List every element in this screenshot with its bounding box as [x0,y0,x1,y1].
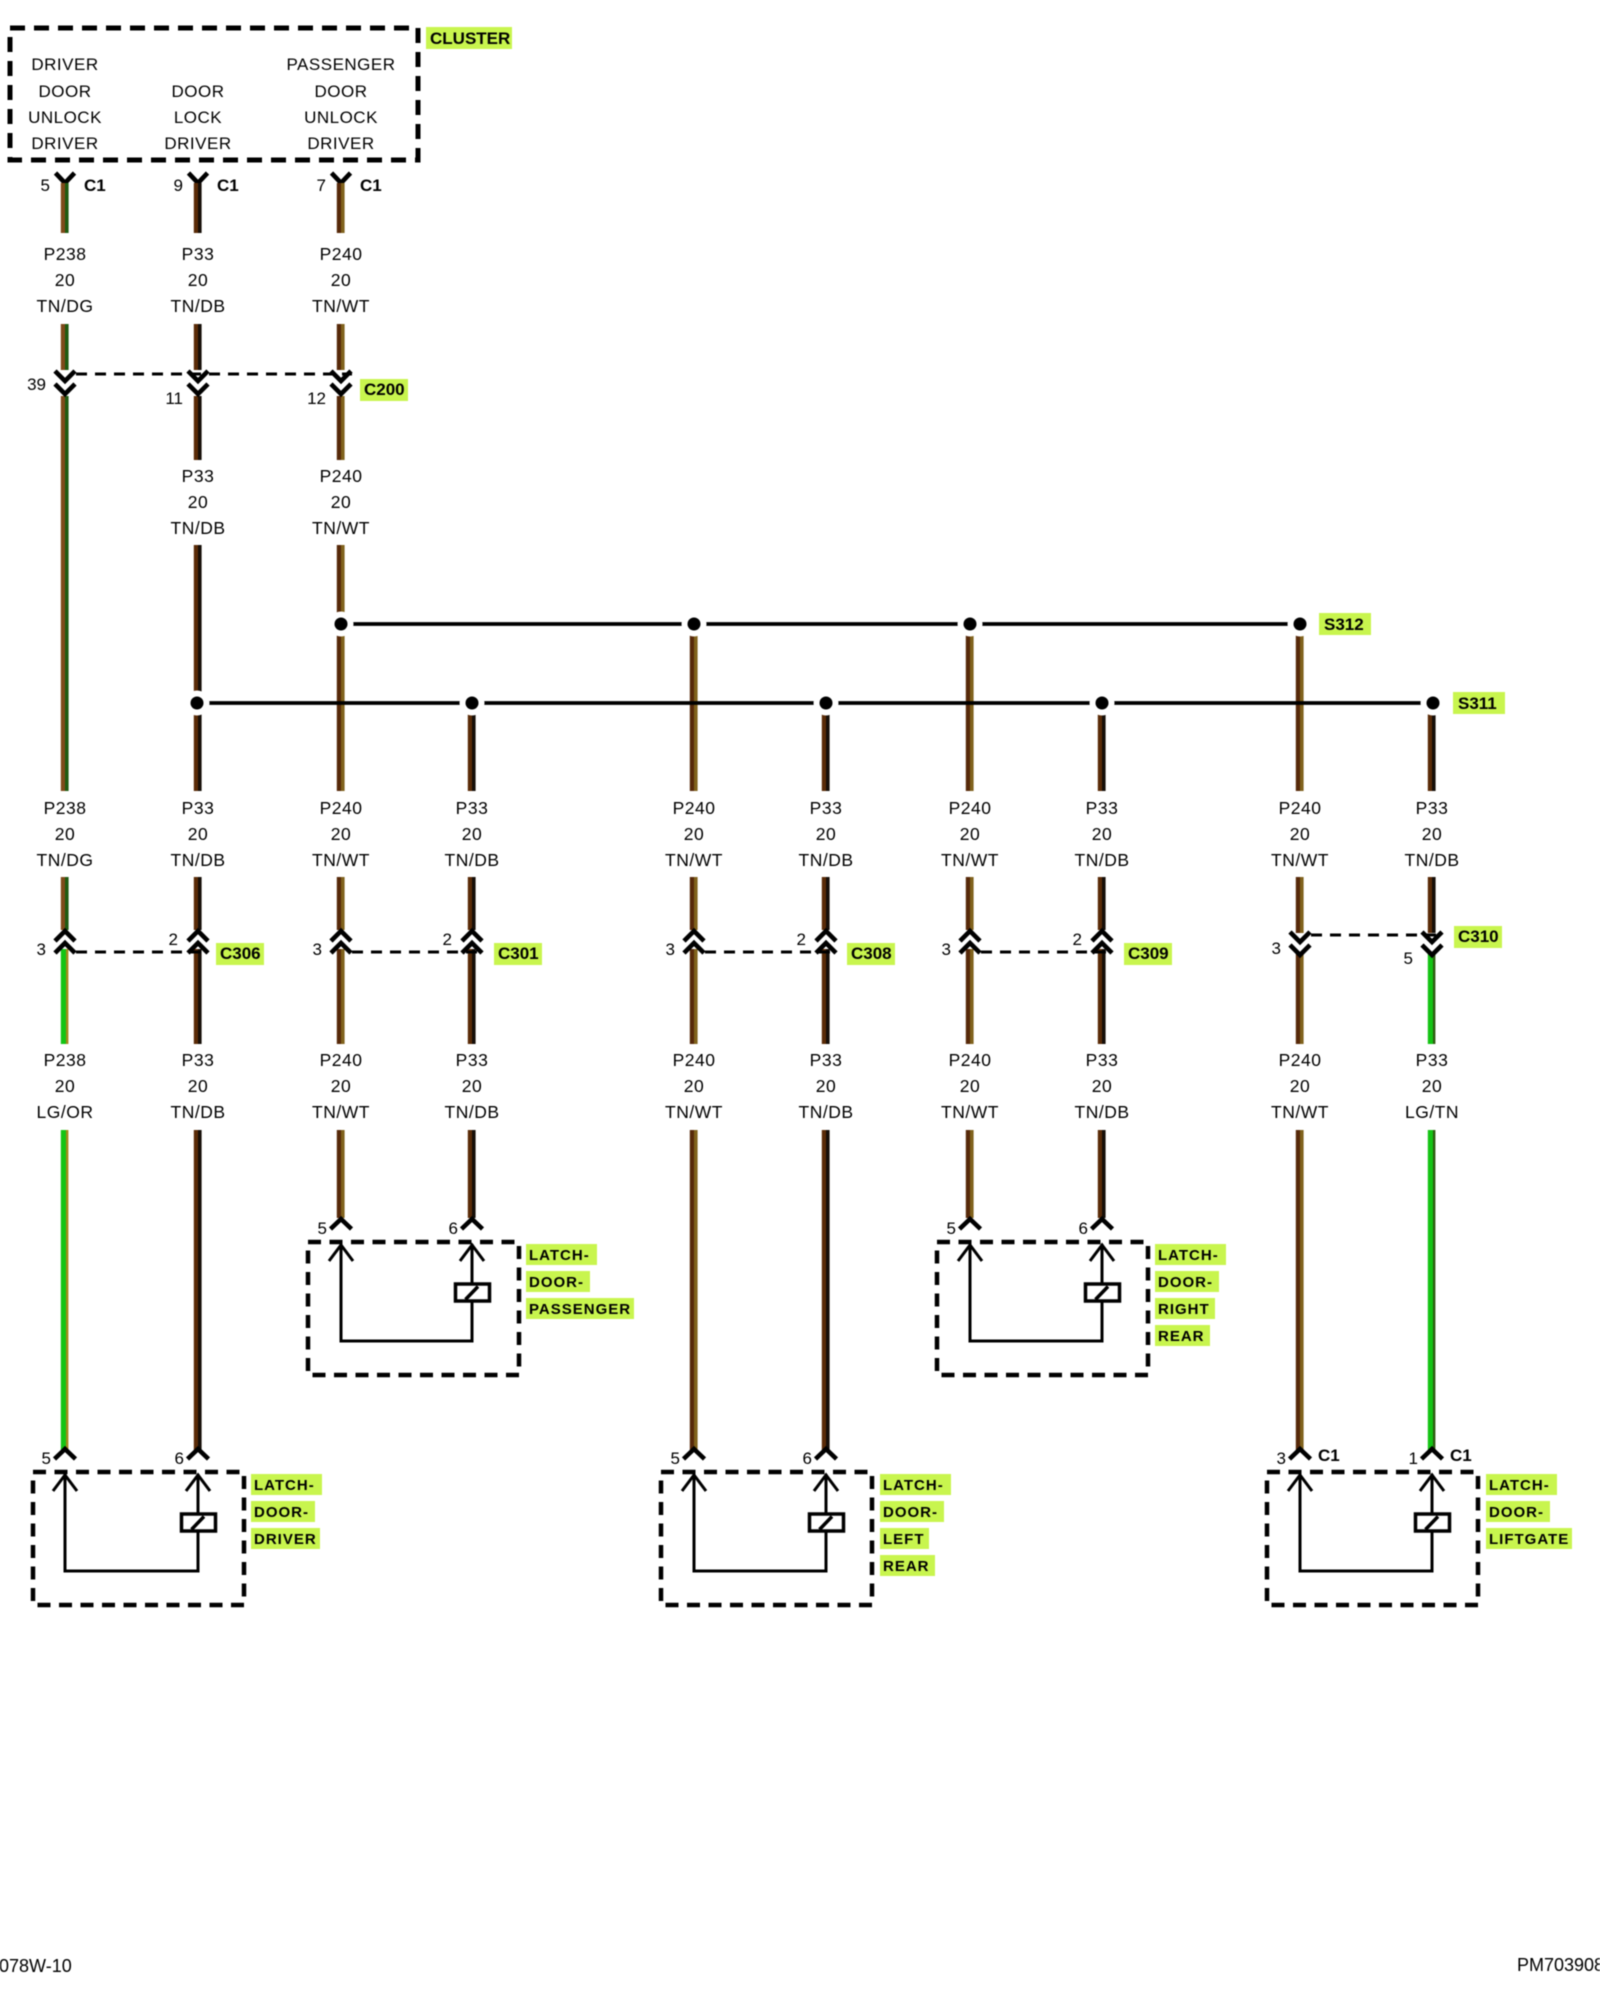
svg-text:5: 5 [42,1449,51,1468]
splice S311 bus line [197,701,1433,705]
svg-text:6: 6 [1079,1219,1088,1238]
svg-text:9: 9 [174,176,183,195]
wire label P238 20 LG/OR (row D) [37,1050,94,1122]
svg-text:20: 20 [816,1076,836,1096]
wire label P240 20 TN/WT (row D) [1271,1050,1329,1122]
svg-text:TN/WT: TN/WT [312,850,370,870]
connector C301 pin 2 [443,930,482,953]
svg-text:P33: P33 [182,798,215,818]
svg-text:TN/DB: TN/DB [171,850,226,870]
connector C200 pin 11 [165,371,208,408]
svg-text:P240: P240 [673,1050,716,1070]
svg-text:P238: P238 [44,798,87,818]
svg-text:2: 2 [1073,930,1082,949]
latch door driver internal actuator circuit [53,1474,216,1571]
cluster module box [10,28,418,160]
wire label P33 20 TN/DB (row D) [445,1050,500,1122]
wire label P33 20 TN/DB (row D) [171,1050,226,1122]
svg-text:20: 20 [331,270,351,290]
wire label P33 20 TN/DB (row C) [1075,798,1130,870]
label latch door right rear line REAR [1155,1325,1210,1346]
svg-text:3: 3 [313,940,322,959]
svg-text:C310: C310 [1458,927,1499,946]
wire P33 20 LG/TN (C310 to liftgate latch pin1) [1430,952,1434,1450]
svg-text:20: 20 [462,1076,482,1096]
latch door passenger pin 6 connector [449,1219,483,1238]
latch door driver pin 5 connector [42,1449,76,1468]
label latch door driver line DOOR- [251,1501,315,1522]
svg-text:TN/WT: TN/WT [665,1102,723,1122]
svg-text:P33: P33 [456,1050,489,1070]
label latch door passenger line LATCH- [526,1244,597,1265]
component latch door left rear box [661,1472,872,1605]
svg-text:P33: P33 [1416,1050,1449,1070]
svg-text:5: 5 [41,176,50,195]
wire P238 20 TN/DG (cluster pin5 to C306) [63,183,67,930]
svg-text:TN/DB: TN/DB [445,1102,500,1122]
splice S312 junction dot x=1300 [1288,612,1313,637]
connector C309 dashed line [981,951,1113,954]
svg-text:LATCH-: LATCH- [254,1477,315,1494]
svg-text:LOCK: LOCK [174,108,222,127]
svg-text:REAR: REAR [1158,1328,1205,1345]
label latch door driver line LATCH- [251,1474,322,1495]
component latch door right rear box [937,1242,1148,1375]
svg-text:20: 20 [462,824,482,844]
connector C306 dashed line [76,951,209,954]
svg-text:DRIVER: DRIVER [31,55,98,74]
svg-text:UNLOCK: UNLOCK [28,108,102,127]
connector C310 dashed line [1311,934,1444,937]
label latch door passenger line DOOR- [526,1271,590,1292]
latch door liftgate pin 1 connector [1409,1446,1472,1468]
svg-text:P238: P238 [44,1050,87,1070]
svg-text:C200: C200 [364,380,405,399]
svg-text:20: 20 [188,824,208,844]
svg-text:1: 1 [1409,1449,1418,1468]
connector C308 dashed line [705,951,837,954]
svg-text:TN/DB: TN/DB [171,296,226,316]
svg-text:LATCH-: LATCH- [1158,1247,1219,1264]
svg-text:TN/WT: TN/WT [665,850,723,870]
svg-text:6: 6 [803,1449,812,1468]
svg-text:DRIVER: DRIVER [31,134,98,153]
latch door left rear internal actuator circuit [682,1474,844,1571]
label C200 [360,379,408,401]
svg-text:CLUSTER: CLUSTER [430,29,510,48]
wire label P240 20 TN/WT (row D) [312,1050,370,1122]
svg-text:DOOR: DOOR [39,82,92,101]
svg-text:20: 20 [960,1076,980,1096]
wire label P240 20 TN/WT (row C) [941,798,999,870]
svg-text:P33: P33 [182,1050,215,1070]
wire label P33 20 TN/DB (row C) [445,798,500,870]
svg-text:P33: P33 [810,1050,843,1070]
svg-text:PASSENGER: PASSENGER [286,55,395,74]
wire P240 20 TN/WT (S312 via C308 to left rear latch pin5) [692,624,696,1450]
svg-text:TN/WT: TN/WT [941,1102,999,1122]
connector C301 dashed line [352,951,483,954]
svg-text:2: 2 [169,930,178,949]
svg-text:DRIVER: DRIVER [164,134,231,153]
latch door right rear internal actuator circuit [958,1244,1120,1341]
label C310 [1454,926,1502,948]
svg-text:20: 20 [960,824,980,844]
svg-text:C309: C309 [1128,944,1169,963]
svg-text:20: 20 [55,270,75,290]
svg-text:7: 7 [317,176,326,195]
svg-text:TN/DB: TN/DB [171,518,226,538]
svg-text:LG/OR: LG/OR [37,1102,94,1122]
svg-text:TN/DG: TN/DG [37,296,94,316]
splice S311 junction dot x=1433 [1421,691,1446,716]
connector C310 pin 5 [1404,932,1442,968]
splice S312 junction dot x=970 [958,612,983,637]
label latch door left rear line LATCH- [880,1474,951,1495]
svg-text:C1: C1 [360,176,382,195]
connector pin 7 C1 (cluster) [317,173,382,195]
svg-text:P33: P33 [810,798,843,818]
svg-text:RIGHT: RIGHT [1158,1301,1210,1318]
wire P33 20 TN/DB (cluster pin9 via C200/S311/C306 to driver latch pin6) [196,183,200,1450]
splice S312 junction dot x=341 [329,612,354,637]
svg-text:C1: C1 [1450,1446,1472,1465]
svg-text:C306: C306 [220,944,261,963]
svg-text:DOOR: DOOR [315,82,368,101]
svg-text:20: 20 [1422,1076,1442,1096]
svg-text:P240: P240 [320,798,363,818]
svg-text:TN/DB: TN/DB [799,1102,854,1122]
svg-text:20: 20 [55,824,75,844]
wire label P240 20 TN/WT (row C) [312,798,370,870]
svg-text:20: 20 [188,1076,208,1096]
svg-text:TN/DB: TN/DB [445,850,500,870]
svg-text:C301: C301 [498,944,539,963]
wire label P240 20 TN/WT (row D) [665,1050,723,1122]
latch door driver pin 6 connector [175,1449,209,1468]
wire label P33 20 LG/TN (row D) [1405,1050,1459,1122]
label latch door right rear line RIGHT [1155,1298,1215,1319]
svg-text:5: 5 [318,1219,327,1238]
svg-text:20: 20 [188,270,208,290]
label latch door liftgate line DOOR- [1486,1501,1550,1522]
wire label P33 20 TN/DB (row B) [171,466,226,538]
svg-text:20: 20 [55,1076,75,1096]
wire label P240 20 TN/WT (row C) [1271,798,1329,870]
svg-text:5: 5 [671,1449,680,1468]
wire label P240 20 TN/WT (row A) [312,244,370,316]
wire P33 20 TN/DB (S311 to C310) [1430,703,1434,933]
wire P240 20 TN/WT (S312 via C309 to right rear latch pin5) [968,624,972,1218]
component latch door driver box [33,1472,244,1605]
svg-text:LATCH-: LATCH- [1489,1477,1550,1494]
svg-text:PASSENGER: PASSENGER [529,1301,631,1318]
svg-text:TN/WT: TN/WT [941,850,999,870]
svg-text:P238: P238 [44,244,87,264]
svg-text:TN/WT: TN/WT [1271,850,1329,870]
wire label P240 20 TN/WT (row C) [665,798,723,870]
svg-text:DRIVER: DRIVER [307,134,374,153]
svg-text:P240: P240 [949,798,992,818]
svg-text:S312: S312 [1324,615,1364,634]
svg-text:P240: P240 [320,1050,363,1070]
svg-text:20: 20 [684,1076,704,1096]
svg-text:TN/WT: TN/WT [312,296,370,316]
svg-text:20: 20 [816,824,836,844]
svg-text:DOOR-: DOOR- [254,1504,309,1521]
latch door passenger internal actuator circuit [329,1244,490,1341]
svg-text:DOOR-: DOOR- [1489,1504,1544,1521]
splice S312 junction dot x=694 [682,612,707,637]
svg-text:P33: P33 [182,244,215,264]
svg-text:20: 20 [1092,824,1112,844]
svg-text:P33: P33 [1416,798,1449,818]
component latch door liftgate box [1267,1472,1478,1605]
svg-text:20: 20 [1092,1076,1112,1096]
svg-text:C1: C1 [1318,1446,1340,1465]
svg-text:P33: P33 [1086,1050,1119,1070]
label latch door driver line DRIVER [251,1528,320,1549]
label latch door liftgate line LIFTGATE [1486,1528,1572,1549]
svg-text:5: 5 [947,1219,956,1238]
footer sheet number 078W-10 [0,1956,72,1976]
svg-text:DRIVER: DRIVER [254,1531,317,1548]
svg-text:TN/DB: TN/DB [171,1102,226,1122]
svg-text:PM703908: PM703908 [1517,1955,1600,1975]
svg-text:12: 12 [307,389,326,408]
footer code PM703908 [1517,1955,1600,1975]
svg-text:5: 5 [1404,949,1413,968]
svg-text:TN/DG: TN/DG [37,850,94,870]
svg-text:REAR: REAR [883,1558,930,1575]
wire P33 20 TN/DB (S311 via C308 to left rear latch pin6) [824,703,828,1450]
splice S311 junction dot x=197 [185,691,210,716]
svg-text:TN/DB: TN/DB [799,850,854,870]
svg-text:6: 6 [449,1219,458,1238]
label C309 [1124,943,1172,965]
splice S311 junction dot x=1102 [1090,691,1115,716]
svg-text:P240: P240 [949,1050,992,1070]
svg-text:3: 3 [37,940,46,959]
label C301 [494,943,542,965]
svg-text:20: 20 [684,824,704,844]
svg-text:P33: P33 [456,798,489,818]
label latch door passenger line PASSENGER [526,1298,634,1319]
svg-text:20: 20 [1290,824,1310,844]
svg-text:DOOR-: DOOR- [883,1504,938,1521]
label C308 [847,943,895,965]
svg-text:TN/DB: TN/DB [1075,850,1130,870]
svg-text:39: 39 [27,375,46,394]
svg-text:P240: P240 [320,244,363,264]
svg-text:20: 20 [331,1076,351,1096]
svg-text:DOOR-: DOOR- [1158,1274,1213,1291]
wire label P33 20 TN/DB (row A) [171,244,226,316]
label latch door right rear line LATCH- [1155,1244,1226,1265]
connector C309 pin 2 [1073,930,1112,953]
wire label P33 20 TN/DB (row C) [171,798,226,870]
svg-text:20: 20 [1422,824,1442,844]
svg-text:20: 20 [331,492,351,512]
wire label P33 20 TN/DB (row D) [799,1050,854,1122]
svg-text:20: 20 [188,492,208,512]
splice S311 junction dot x=472 [460,691,485,716]
latch door right rear pin 6 connector [1079,1219,1113,1238]
connector C309 pin 3 [942,931,980,959]
wire P33 20 TN/DB (S311 via C309 to right rear latch pin6) [1100,703,1104,1218]
svg-text:TN/DB: TN/DB [1075,1102,1130,1122]
label latch door left rear line DOOR- [880,1501,944,1522]
splice S311 junction dot x=826 [814,691,839,716]
wire P33 20 TN/DB (S311 via C301 to passenger latch pin6) [470,703,474,1218]
wire label P240 20 TN/WT (row D) [941,1050,999,1122]
svg-text:078W-10: 078W-10 [0,1956,72,1976]
wire P238 20 LG/OR (C306 to driver latch pin5) [63,949,67,1450]
label latch door right rear line DOOR- [1155,1271,1219,1292]
svg-text:S311: S311 [1458,694,1497,713]
connector pin 5 C1 (cluster) [41,173,106,195]
svg-text:P240: P240 [1279,1050,1322,1070]
latch door liftgate pin 3 connector [1277,1446,1340,1468]
svg-text:P240: P240 [1279,798,1322,818]
svg-text:LIFTGATE: LIFTGATE [1489,1531,1569,1548]
wire label P33 20 TN/DB (row C) [1405,798,1460,870]
latch door liftgate internal actuator circuit [1288,1474,1450,1571]
connector C306 pin 2 [169,930,208,953]
svg-text:LEFT: LEFT [883,1531,925,1548]
wire label P238 20 TN/DG (row C) [37,798,94,870]
svg-text:3: 3 [942,940,951,959]
svg-text:6: 6 [175,1449,184,1468]
svg-text:3: 3 [1272,939,1281,958]
wire label P33 20 TN/DB (row D) [1075,1050,1130,1122]
connector C308 pin 2 [797,930,836,953]
svg-text:P240: P240 [673,798,716,818]
svg-text:C1: C1 [217,176,239,195]
svg-text:TN/WT: TN/WT [1271,1102,1329,1122]
label latch door left rear line LEFT [880,1528,929,1549]
wire label P33 20 TN/DB (row C) [799,798,854,870]
svg-text:3: 3 [666,940,675,959]
label latch door left rear line REAR [880,1555,935,1576]
svg-text:C1: C1 [84,176,106,195]
label S311 [1453,692,1505,714]
svg-text:LATCH-: LATCH- [529,1247,590,1264]
wire label P240 20 TN/WT (row B) [312,466,370,538]
svg-text:3: 3 [1277,1449,1286,1468]
latch door left rear pin 5 connector [671,1449,705,1468]
svg-text:C308: C308 [851,944,892,963]
svg-text:P33: P33 [1086,798,1119,818]
svg-text:DOOR: DOOR [172,82,225,101]
connector C301 pin 3 [313,931,351,959]
svg-text:LATCH-: LATCH- [883,1477,944,1494]
connector C306 pin 3 [37,931,75,959]
svg-text:11: 11 [165,389,183,408]
connector C200 dashed line [76,373,352,376]
svg-text:LG/TN: LG/TN [1405,1102,1459,1122]
wire label P238 20 TN/DG (row A) [37,244,94,316]
svg-text:TN/WT: TN/WT [312,1102,370,1122]
connector C308 pin 3 [666,931,704,959]
component latch door passenger box [308,1242,519,1375]
wire P240 20 TN/WT (S312 via C310 to liftgate latch pin3) [1298,624,1302,1450]
svg-text:P33: P33 [182,466,215,486]
label C306 [216,943,264,965]
svg-text:2: 2 [443,930,452,949]
svg-text:P240: P240 [320,466,363,486]
svg-text:DOOR-: DOOR- [529,1274,584,1291]
label CLUSTER [426,27,512,49]
svg-text:2: 2 [797,930,806,949]
splice S312 bus line [341,622,1300,626]
svg-text:20: 20 [1290,1076,1310,1096]
svg-text:TN/DB: TN/DB [1405,850,1460,870]
svg-text:UNLOCK: UNLOCK [304,108,378,127]
connector C310 pin 3 [1272,932,1310,958]
svg-text:TN/WT: TN/WT [312,518,370,538]
label S312 [1319,613,1371,635]
connector C200 pin 39 [27,371,75,394]
latch door passenger pin 5 connector [318,1219,352,1238]
connector pin 9 C1 (cluster) [174,173,239,195]
label latch door liftgate line LATCH- [1486,1474,1557,1495]
connector C200 pin 12 [307,371,351,408]
latch door right rear pin 5 connector [947,1219,981,1238]
latch door left rear pin 6 connector [803,1449,837,1468]
wire P240 20 TN/WT (cluster pin7 via C200/S312/C301 to passenger latch pin5) [339,183,343,1218]
svg-text:20: 20 [331,824,351,844]
